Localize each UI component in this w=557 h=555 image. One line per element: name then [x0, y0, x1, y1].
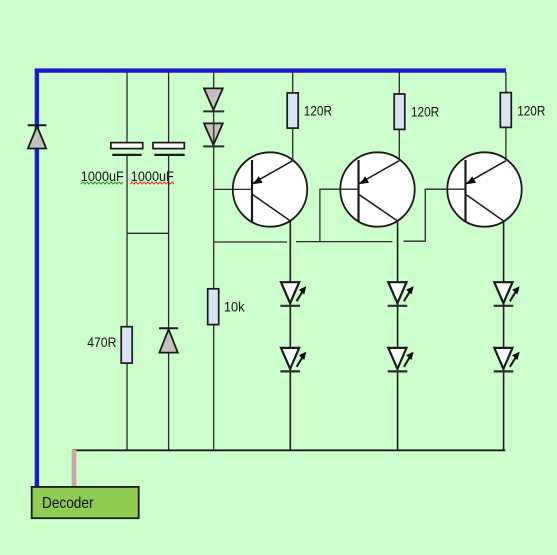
wire: bus to capacitor C2 — [168, 72, 170, 143]
wire: bus to diode D2 — [213, 72, 215, 88]
svg-text:120R: 120R — [517, 103, 545, 119]
wire: Q2 base L (vertical + horizontal) — [320, 189, 359, 241]
wire: Q3 collector down through LEDs to bus — [503, 221, 505, 450]
resistor R3 120R — [500, 93, 511, 128]
wire: 10k column to Q1 collector column (horizontal) — [214, 241, 287, 243]
wire: bottom ground bus — [73, 449, 506, 451]
wire: diode column down to 10k resistor — [213, 111, 215, 289]
wire: bus to resistor R2 (120R) — [398, 72, 400, 94]
LED LED4 (chain 2 lower) — [388, 348, 414, 372]
wire: Q3 base L (vertical + horizontal) — [404, 189, 466, 241]
wire: R2 to Q2 emitter — [398, 129, 400, 161]
diode D4 (bottom left, up triangle with bar on top) — [159, 328, 178, 352]
svg-text:120R: 120R — [411, 104, 439, 120]
capacitor C2 (1000uF) plates — [153, 143, 185, 155]
wire: junction between C1 and C2 columns — [127, 232, 169, 234]
wire: 10k to bottom bus — [213, 325, 215, 451]
diode D3 (below D2, down triangle) — [203, 123, 224, 146]
resistor R2 120R — [394, 94, 405, 129]
LED LED1 (chain 1 upper) — [280, 282, 306, 306]
resistor R1 120R — [287, 93, 298, 128]
capacitor C1 (1000uF) plates — [111, 143, 143, 155]
diode D2 (top of 10k column, down triangle) — [203, 88, 224, 111]
resistor R5 10k — [208, 289, 219, 325]
resistor R4 470R — [121, 327, 132, 363]
wire: R3 to Q3 emitter — [505, 127, 507, 161]
wire: C2 down to bottom bus — [168, 156, 170, 450]
svg-text:10k: 10k — [224, 299, 246, 315]
wire: bus to resistor R1 (120R) — [292, 72, 294, 93]
wire: bus to capacitor C1 — [126, 72, 128, 143]
label: 1000uF (C1) with green squiggle — [81, 169, 124, 184]
LED LED3 (chain 2 upper) — [388, 282, 414, 306]
wire: blue positive supply bus (left vertical + top horizontal) — [37, 71, 506, 487]
diode D1 on left blue wire (cathode bar + up triangle) — [28, 125, 47, 148]
transistor Q1 (PNP) — [233, 152, 307, 226]
decoder block U1 — [32, 487, 139, 518]
svg-text:470R: 470R — [87, 334, 116, 350]
LED LED2 (chain 1 lower) — [280, 348, 306, 372]
wire: bus to resistor R3 (120R) — [505, 72, 507, 93]
svg-text:Decoder: Decoder — [42, 495, 94, 512]
wire: pink stub from bus to decoder — [72, 450, 77, 487]
transistor Q3 (PNP) — [447, 152, 521, 226]
wire: C1 down to bottom bus — [126, 156, 128, 450]
transistor Q2 (PNP) — [340, 152, 414, 226]
wire: base of Q1 — [214, 188, 252, 190]
svg-text:120R: 120R — [304, 102, 332, 118]
label: 1000uF (C2) with red squiggle — [130, 169, 174, 184]
wire: Q1 collector down through LEDs to bus — [289, 221, 291, 450]
wire: R1 to Q1 emitter — [292, 128, 294, 161]
LED LED6 (chain 3 lower) — [494, 348, 520, 372]
wire: horizontal link toward Q2 base from Q1 collector — [296, 241, 392, 243]
wire: Q2 collector down through LEDs to bus — [397, 221, 399, 450]
LED LED5 (chain 3 upper) — [494, 282, 520, 306]
